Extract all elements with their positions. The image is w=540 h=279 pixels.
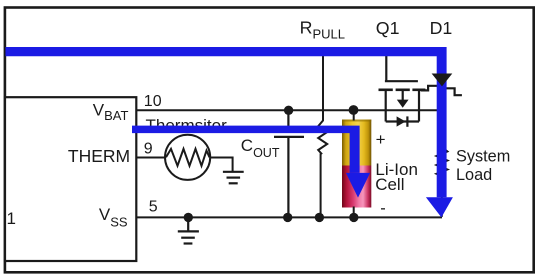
IC U1 box (5, 97, 136, 261)
node junction dot VSS-ground (184, 213, 193, 222)
ground (VSS) (178, 217, 199, 243)
svg-text:System: System (456, 148, 510, 166)
node junction dot RPULL-VSS (315, 213, 324, 222)
node junction dot VBAT-COUT (284, 106, 293, 115)
resistor RPULL (318, 52, 327, 217)
diode D1 (drawn over blue path) (432, 74, 453, 87)
wire cell bottom lead (353, 207, 355, 218)
blue arrow into system load (426, 197, 453, 217)
Q1 body arrow (397, 100, 409, 108)
load resistor (system load, behind blue arrow) (437, 96, 448, 217)
svg-text:5: 5 (149, 199, 158, 216)
wire VBAT rail (136, 109, 438, 111)
wire top rail (hidden under blue path) (5, 51, 442, 53)
wire cell top lead (353, 110, 355, 120)
svg-text:9: 9 (144, 141, 153, 158)
blue current path: charge path into cell (132, 126, 360, 173)
wire bottom VSS rail (136, 216, 442, 218)
thermistor RT1 (165, 135, 233, 180)
svg-text:THERM: THERM (68, 146, 130, 166)
svg-text:D1: D1 (430, 18, 453, 38)
blue arrow into cell (346, 173, 370, 198)
svg-text:Load: Load (456, 166, 492, 184)
wire D1 anode stub (441, 52, 443, 74)
transistor Q1 (PMOS with body diode) (379, 55, 426, 127)
Q1 body diode (397, 116, 406, 126)
node junction dot cell-VSS (349, 213, 358, 222)
Li-Ion cell body (342, 120, 371, 208)
ground (thermistor) (223, 172, 244, 184)
diode D1 cathode bar (schottky) (421, 86, 462, 95)
wire THERM lead (136, 157, 165, 159)
svg-text:Q1: Q1 (376, 18, 400, 38)
blue current path: input to system load (6, 47, 447, 197)
svg-text:+: + (376, 130, 386, 149)
capacitor COUT (274, 110, 304, 217)
svg-text:-: - (380, 199, 386, 217)
svg-text:Cell: Cell (375, 175, 404, 194)
node junction dot COUT-VSS (283, 213, 292, 222)
svg-text:1: 1 (7, 209, 16, 228)
node junction dot VBAT-cell (349, 105, 359, 115)
svg-text:10: 10 (144, 93, 162, 110)
